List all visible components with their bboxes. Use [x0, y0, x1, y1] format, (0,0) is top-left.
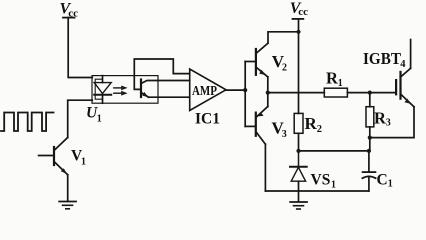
label R1: [326, 69, 343, 89]
node AMP output junction: [243, 88, 247, 92]
Vcc supply terminal (left): [63, 17, 75, 19]
resistor R2: [294, 113, 303, 133]
svg-text:IC1: IC1: [195, 110, 220, 127]
svg-text:2: 2: [282, 63, 287, 74]
wire output node down to V3 emitter: [267, 93, 269, 107]
wire R1 to IGBT gate: [347, 92, 396, 94]
resistor R1: [324, 88, 347, 97]
phototransistor inside U1: [141, 80, 158, 98]
transistor V2 (NPN upper driver): [256, 43, 268, 77]
wire bottom rail: [265, 190, 369, 192]
wire base bus vertical: [244, 62, 246, 127]
node emitters output junction: [266, 91, 270, 95]
wire R3 bottom to C1: [369, 127, 371, 151]
svg-text:1: 1: [81, 157, 86, 168]
transistor V1 (NPN): [54, 138, 68, 175]
wire IGBT collector up: [410, 40, 412, 69]
node R2/VS1 junction: [296, 149, 300, 153]
wire V2 collector to Vcc rail: [268, 32, 299, 43]
wire output node to R1: [268, 92, 325, 94]
svg-text:3: 3: [386, 118, 391, 129]
light arrows inside U1: [114, 86, 128, 96]
Vcc supply terminal (middle): [293, 18, 304, 20]
label U1: [86, 105, 102, 125]
wire R2 bottom to zener junction: [298, 133, 300, 151]
label Vcc (middle): [290, 0, 308, 18]
wire V3 base lead: [245, 125, 256, 127]
label V1: [71, 148, 86, 168]
label R2: [305, 114, 323, 135]
IGBT V4 symbol: [396, 68, 414, 107]
svg-text:cc: cc: [68, 8, 78, 20]
svg-text:cc: cc: [298, 6, 308, 18]
svg-text:VS: VS: [311, 171, 331, 188]
label V3: [272, 119, 287, 141]
wire V2 emitter down to output node: [267, 77, 269, 93]
wire V1 base lead: [39, 155, 54, 157]
node R3/emitter return junction: [368, 136, 372, 140]
wire AMP output to driver bases: [226, 89, 245, 91]
svg-text:4: 4: [400, 59, 406, 70]
label VS1: [311, 171, 337, 190]
LED inside U1: [94, 76, 111, 104]
wire Vcc mid stem down to R2: [298, 19, 300, 114]
wire negative-bias rail (VS1 junction to C1 junction): [299, 150, 369, 152]
label V2: [272, 52, 287, 74]
square wave input signal: [1, 113, 54, 132]
svg-text:1: 1: [388, 179, 393, 190]
node Vcc/V2 collector junction: [296, 30, 300, 34]
label Vcc (left): [60, 1, 79, 20]
svg-text:1: 1: [338, 78, 343, 89]
wire V1 collector riser to LED cathode: [68, 100, 93, 137]
svg-text:1: 1: [331, 179, 336, 190]
label IGBT4: [363, 49, 406, 70]
node gate/R3 junction: [368, 91, 372, 95]
wire phototransistor base loop over the top: [134, 59, 189, 89]
op-amp / amplifier IC1 (AMP triangle): [190, 69, 226, 111]
svg-text:3: 3: [282, 129, 287, 140]
wire V1 emitter to ground: [67, 175, 69, 202]
svg-text:AMP: AMP: [192, 84, 217, 99]
ground (below V1): [59, 202, 76, 209]
optocoupler U1 package box: [92, 76, 158, 104]
wire V2 base lead: [245, 61, 256, 63]
ground (below VS1): [290, 202, 307, 209]
label AMP: [192, 84, 217, 99]
label C1: [377, 172, 393, 190]
wire ground stem (mid): [298, 191, 300, 202]
wire Vcc left rail down to optocoupler LED anode: [68, 18, 92, 78]
node C1 top junction: [367, 149, 371, 153]
transistor V3 (PNP lower driver): [256, 107, 268, 145]
wire IGBT emitter return: [370, 107, 414, 138]
label R3: [374, 108, 391, 128]
wire phototransistor collector to AMP input: [158, 80, 190, 82]
capacitor C1: [362, 151, 375, 191]
svg-text:1: 1: [97, 114, 102, 125]
svg-text:R: R: [305, 114, 318, 133]
wire V3 collector down to bottom rail: [264, 144, 266, 191]
svg-text:C: C: [377, 172, 388, 189]
zener diode VS1: [290, 151, 307, 191]
svg-text:2: 2: [317, 124, 322, 135]
wire phototransistor emitter to AMP input: [149, 96, 190, 98]
resistor R3: [366, 93, 374, 127]
label IC1: [195, 110, 220, 127]
svg-text:IGBT: IGBT: [363, 49, 402, 68]
